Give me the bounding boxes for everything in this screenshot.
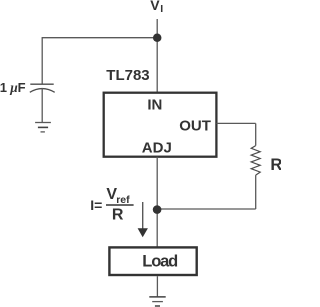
wire top node to capacitor — [42, 37, 158, 39]
wire capacitor bottom lead — [41, 88, 43, 122]
wire VI to IN pin — [156, 19, 158, 92]
svg-text:TL783: TL783 — [106, 67, 149, 84]
load block — [109, 247, 196, 275]
svg-text:OUT: OUT — [179, 118, 211, 135]
svg-text:F: F — [18, 80, 26, 95]
svg-text:R: R — [270, 156, 281, 174]
wire OUT pin to resistor — [216, 123, 255, 145]
wire resistor to ADJ node — [157, 175, 256, 209]
junction dot at ADJ node — [153, 205, 162, 214]
current equation I = Vref / R — [90, 186, 133, 223]
junction dot at VI node — [153, 34, 162, 43]
ground (load) — [149, 297, 165, 306]
wire capacitor top lead — [41, 38, 43, 84]
wire Load to ground — [156, 276, 158, 296]
resistor R zigzag — [251, 146, 260, 176]
current direction arrow — [138, 202, 148, 237]
value label 1 uF — [0, 80, 26, 95]
wire ADJ pin to Load — [156, 157, 158, 247]
svg-text:I=: I= — [90, 197, 102, 213]
svg-text:Load: Load — [142, 253, 177, 271]
svg-text:R: R — [112, 206, 124, 223]
capacitor C1 plates — [30, 84, 55, 92]
node VI label — [150, 0, 163, 15]
svg-text:1: 1 — [0, 80, 7, 95]
svg-text:ref: ref — [116, 194, 130, 206]
svg-text:I: I — [160, 3, 163, 15]
svg-text:IN: IN — [147, 96, 162, 113]
op-amp U1 TL783 body — [104, 93, 217, 157]
svg-text:V: V — [150, 0, 160, 13]
svg-text:ADJ: ADJ — [142, 140, 172, 157]
ground (capacitor) — [35, 123, 51, 132]
